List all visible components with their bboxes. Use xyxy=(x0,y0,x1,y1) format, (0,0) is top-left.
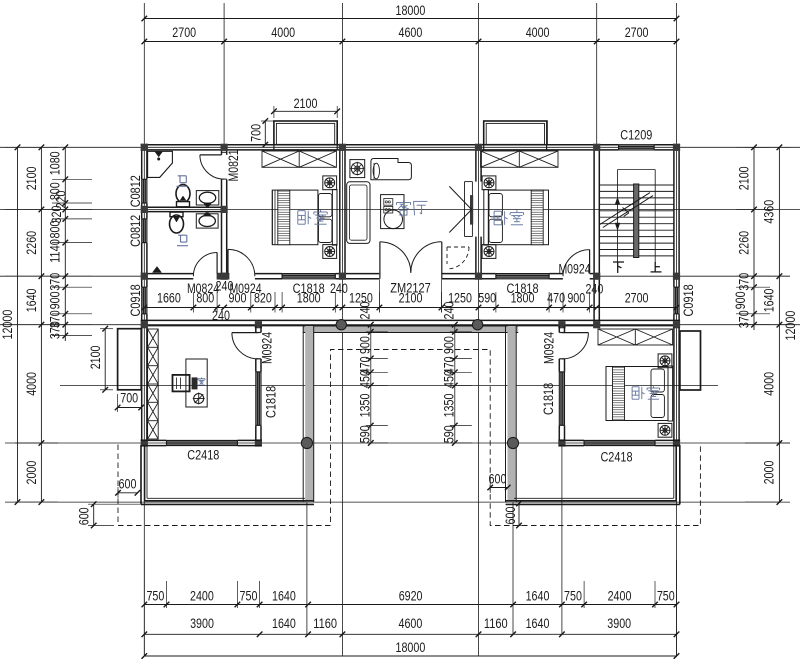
terrace right parapet xyxy=(506,445,680,504)
grid axis horizontal D xyxy=(0,324,800,326)
stair label down xyxy=(613,262,624,273)
svg-text:C2418: C2418 xyxy=(187,447,219,463)
svg-text:4600: 4600 xyxy=(399,616,423,632)
dim chain left sub (1080/800/220/320/800/1140/370/900/370/370) xyxy=(48,145,92,342)
svg-text:2000: 2000 xyxy=(24,461,40,485)
svg-text:1080: 1080 xyxy=(48,151,64,175)
svg-text:C1818: C1818 xyxy=(263,386,279,418)
room label bedroom2 xyxy=(494,210,523,225)
svg-text:2700: 2700 xyxy=(625,290,649,306)
wardrobe bedroom2 xyxy=(481,151,558,167)
wardrobe right-wing xyxy=(598,329,673,345)
veranda rail right xyxy=(506,326,517,502)
label C2418 left-wing xyxy=(187,447,219,463)
wardrobe bedroom1 xyxy=(262,151,336,167)
label C1209 xyxy=(620,127,652,143)
window C1818 left-wing xyxy=(256,372,261,425)
svg-text:18000: 18000 xyxy=(396,3,426,19)
door M0924 bedroom2 xyxy=(558,250,590,278)
svg-text:1640: 1640 xyxy=(24,288,40,312)
svg-text:900: 900 xyxy=(441,336,457,354)
svg-text:M0924: M0924 xyxy=(558,261,590,277)
wall right-wing left (C1818 wall) xyxy=(559,326,564,441)
bedside tables bedroom2 xyxy=(482,176,496,259)
veranda rail left xyxy=(303,326,314,502)
window C0812 lower xyxy=(142,219,147,243)
computer left-wing xyxy=(173,375,198,392)
svg-text:600: 600 xyxy=(77,507,93,525)
svg-text:600: 600 xyxy=(489,471,507,487)
dim bay1 700 xyxy=(248,118,277,147)
wall corridor north xyxy=(147,274,594,279)
stair treads xyxy=(600,185,674,256)
opening pass-through living-bedroom2 xyxy=(449,182,473,237)
bedside tables right-wing xyxy=(658,354,672,437)
appliance fan living xyxy=(350,160,365,178)
desk left-wing xyxy=(186,359,207,407)
svg-text:700: 700 xyxy=(120,390,138,406)
window C1818 bedroom1 south xyxy=(282,274,335,279)
dim chain left main (2100/2260/1640/4000/2000) xyxy=(5,145,58,505)
room label bathroom1 xyxy=(177,176,188,187)
grid axis verticals xyxy=(144,3,676,656)
svg-text:M0824: M0824 xyxy=(187,281,219,297)
svg-text:1640: 1640 xyxy=(272,588,296,604)
window C1818 bedroom2 south xyxy=(496,274,549,279)
window C0918 right corridor xyxy=(674,287,679,314)
stair landing xyxy=(618,170,656,257)
svg-text:240: 240 xyxy=(212,308,230,324)
svg-text:2400: 2400 xyxy=(608,588,632,604)
svg-text:4000: 4000 xyxy=(526,25,550,41)
svg-text:2260: 2260 xyxy=(737,231,753,255)
wall bedroom2-stair xyxy=(594,150,599,322)
bay window right-wing xyxy=(680,331,701,390)
dim bay1 2100 xyxy=(271,96,340,118)
wall left exterior xyxy=(142,144,147,328)
svg-text:M0924: M0924 xyxy=(541,332,557,364)
dim eaves left-bottom 600 xyxy=(77,501,147,528)
svg-text:1250: 1250 xyxy=(349,290,373,306)
svg-text:1640: 1640 xyxy=(761,288,777,312)
label M0924 left-wing xyxy=(260,332,276,364)
svg-text:C0812: C0812 xyxy=(128,175,144,207)
svg-text:2100: 2100 xyxy=(88,345,104,369)
dim chain courtyard right (240/900/470/450/1350/590) xyxy=(441,301,472,445)
eaves dashed outline xyxy=(118,350,700,526)
dim eaves left 600 xyxy=(115,477,140,498)
dashed future door living xyxy=(447,247,469,269)
cabinet TV living xyxy=(371,159,412,180)
toilet bathroom2 xyxy=(170,212,184,233)
floor drain marker xyxy=(153,267,162,273)
door M0924 right-wing xyxy=(562,333,588,359)
grid axis horizontal F xyxy=(15,501,781,503)
label M0924 right-wing xyxy=(541,332,557,364)
shower bathroom1 xyxy=(148,151,173,177)
dim chain bottom row1 (750/2400/750/1640/6920/1640/750/2400/750) xyxy=(142,560,680,656)
svg-text:600: 600 xyxy=(119,477,137,493)
label C0812 upper xyxy=(128,175,144,207)
svg-text:750: 750 xyxy=(564,588,582,604)
svg-text:3900: 3900 xyxy=(607,616,631,632)
svg-text:370: 370 xyxy=(48,321,64,339)
svg-text:1350: 1350 xyxy=(441,394,457,418)
svg-text:C1818: C1818 xyxy=(506,281,538,297)
svg-text:450: 450 xyxy=(441,370,457,388)
grid axis horizontal A xyxy=(0,146,800,148)
svg-text:1350: 1350 xyxy=(357,394,373,418)
svg-text:4000: 4000 xyxy=(24,372,40,396)
svg-text:370: 370 xyxy=(737,310,753,328)
wall right-wing bottom xyxy=(559,440,680,445)
svg-text:370: 370 xyxy=(48,273,64,291)
dim chain top (2700/4000/4600/4000/2700) xyxy=(142,25,680,44)
wall right exterior xyxy=(674,144,679,328)
wall living-bedroom2 xyxy=(476,150,481,274)
svg-text:4360: 4360 xyxy=(761,200,777,224)
svg-text:C1818: C1818 xyxy=(541,383,557,415)
window C1818 right-wing xyxy=(559,372,564,425)
svg-text:470: 470 xyxy=(547,290,565,306)
table living xyxy=(381,195,404,229)
window C1209 stair top xyxy=(619,145,655,150)
door M0924 bedroom1 xyxy=(228,249,255,276)
label C2418 right-wing xyxy=(600,449,632,465)
bed bedroom2 xyxy=(484,190,549,246)
dim bottom row3 18000 xyxy=(142,640,680,659)
svg-text:2400: 2400 xyxy=(190,588,214,604)
room label study xyxy=(198,378,205,386)
svg-text:750: 750 xyxy=(146,588,164,604)
svg-text:2700: 2700 xyxy=(625,25,649,41)
dim left-bay 2100 xyxy=(88,326,113,393)
svg-text:C1818: C1818 xyxy=(293,281,325,297)
dim eaves court 600 xyxy=(487,471,510,493)
svg-text:370: 370 xyxy=(737,273,753,291)
washbasin bathroom1 xyxy=(196,191,219,207)
wall bedroom1-living xyxy=(340,150,345,274)
labels corridor doors-windows xyxy=(187,279,603,324)
dim chain right inner (2100/2260/370/900/370) xyxy=(733,145,770,331)
flue X-strip left-wing wall xyxy=(148,329,159,439)
stair break line xyxy=(600,193,653,228)
svg-text:240: 240 xyxy=(585,281,603,297)
svg-text:2000: 2000 xyxy=(761,461,777,485)
svg-text:2100: 2100 xyxy=(737,166,753,190)
door M0824 bathroom2 xyxy=(193,253,217,277)
dim line left 12000 xyxy=(0,145,20,505)
svg-text:18000: 18000 xyxy=(396,640,426,656)
wall bath-bedroom1 xyxy=(222,150,227,274)
svg-text:M0924: M0924 xyxy=(260,332,276,364)
stair bay floor line xyxy=(599,275,674,277)
stair arrow down xyxy=(615,198,620,265)
dim chain right outer (4360/1640/4000/2000) xyxy=(745,145,790,505)
washbasin bathroom2 xyxy=(196,213,218,228)
dim chain bottom row2 (3900/1640/1160/4600/1160/1640/3900) xyxy=(142,616,680,637)
svg-text:800: 800 xyxy=(48,220,64,238)
dim eaves court-bottom 600 xyxy=(503,501,524,529)
svg-text:2700: 2700 xyxy=(172,25,196,41)
svg-text:590: 590 xyxy=(357,425,373,443)
window C0918 left corridor xyxy=(142,287,147,314)
svg-text:12000: 12000 xyxy=(783,311,799,341)
svg-text:1160: 1160 xyxy=(484,616,508,632)
svg-text:700: 700 xyxy=(248,124,264,142)
wall right-wing right exterior xyxy=(674,327,679,440)
svg-text:1250: 1250 xyxy=(448,290,472,306)
svg-text:1640: 1640 xyxy=(526,616,550,632)
wall left-wing right (C1818 wall) xyxy=(256,326,261,441)
svg-text:240: 240 xyxy=(330,281,348,297)
window C2418 left-wing xyxy=(167,440,238,445)
dim left-bay 700 xyxy=(115,390,144,412)
door M0821 bathroom1 xyxy=(200,149,242,181)
label C1818 left-wing xyxy=(263,386,279,418)
room label bedroom1 xyxy=(298,210,327,225)
bed bedroom1 xyxy=(272,190,337,246)
svg-text:1160: 1160 xyxy=(313,616,337,632)
wall upper-block south xyxy=(141,320,680,325)
svg-text:2100: 2100 xyxy=(24,166,40,190)
chair left-wing xyxy=(193,393,205,405)
door M0924 left-wing xyxy=(232,333,258,359)
room label living xyxy=(397,200,428,215)
svg-text:C0918: C0918 xyxy=(681,284,697,316)
dim chain courtyard left (240/900/470/450/1350/590) xyxy=(357,301,388,445)
svg-text:1640: 1640 xyxy=(526,588,550,604)
room label right-wing bedroom xyxy=(632,386,660,399)
grid axis bottom verticals xyxy=(307,443,562,634)
dim right 12000 text xyxy=(783,311,799,341)
room label bathroom2 xyxy=(177,235,188,246)
window C2418 right-wing xyxy=(584,440,655,445)
svg-text:C1209: C1209 xyxy=(620,127,652,143)
window C0812 upper xyxy=(142,179,147,203)
svg-text:4000: 4000 xyxy=(761,372,777,396)
label C1818 right-wing xyxy=(541,383,557,415)
svg-text:900: 900 xyxy=(567,290,585,306)
svg-text:M0821: M0821 xyxy=(226,149,242,181)
columns (filled squares at grid/wall junctions) xyxy=(141,144,680,447)
stair stringer xyxy=(634,184,639,258)
svg-text:600: 600 xyxy=(503,506,519,524)
svg-text:900: 900 xyxy=(48,291,64,309)
svg-text:1640: 1640 xyxy=(272,616,296,632)
svg-text:900: 900 xyxy=(733,291,749,309)
dim chain corridor (1660/800/900/820/1800/1250/2100/1250/590/1800/470/900/2700) xyxy=(142,279,680,312)
bed right-wing xyxy=(606,366,673,421)
svg-text:ZM2127: ZM2127 xyxy=(390,281,430,297)
svg-text:4000: 4000 xyxy=(271,25,295,41)
svg-text:C2418: C2418 xyxy=(600,449,632,465)
grid axis horizontal E xyxy=(15,442,790,444)
label C0918 right xyxy=(681,284,697,316)
svg-text:C0918: C0918 xyxy=(128,284,144,316)
svg-text:450: 450 xyxy=(357,370,373,388)
veranda rail top xyxy=(303,326,518,333)
grid axis horizontal B xyxy=(0,208,800,210)
entrance door ZM2127 double leaves xyxy=(380,242,442,279)
terrace left parapet xyxy=(141,445,314,504)
svg-text:6920: 6920 xyxy=(399,588,423,604)
grid axis horizontal C xyxy=(0,275,790,277)
svg-text:M0924: M0924 xyxy=(229,281,261,297)
svg-text:750: 750 xyxy=(240,588,258,604)
svg-text:900: 900 xyxy=(357,336,373,354)
stair arrow up xyxy=(654,256,656,264)
svg-text:590: 590 xyxy=(441,425,457,443)
svg-text:590: 590 xyxy=(478,290,496,306)
wall top exterior xyxy=(141,145,680,150)
svg-text:C0812: C0812 xyxy=(128,215,144,247)
toilet bathroom1 xyxy=(176,185,190,207)
dim line top 18000 xyxy=(142,3,680,21)
svg-text:2260: 2260 xyxy=(24,231,40,255)
svg-text:2100: 2100 xyxy=(294,96,318,112)
grid axis horizontal courtyard mid xyxy=(60,385,718,387)
bedside tables bedroom1 xyxy=(323,176,337,259)
svg-text:1140: 1140 xyxy=(48,239,64,263)
svg-text:1660: 1660 xyxy=(157,290,181,306)
wall left-wing bottom xyxy=(141,440,262,445)
label C0918 left xyxy=(128,284,144,316)
bay window bedroom2 top xyxy=(484,121,547,145)
wall bath1-bath2 xyxy=(147,207,222,211)
svg-text:3900: 3900 xyxy=(190,616,214,632)
label C0812 lower xyxy=(128,215,144,247)
svg-text:750: 750 xyxy=(657,588,675,604)
bay window left-wing xyxy=(118,329,142,390)
sofa living xyxy=(347,182,370,244)
bay window bedroom1 top xyxy=(274,121,337,145)
wall left-wing left exterior xyxy=(142,328,147,441)
veranda round columns xyxy=(301,320,518,449)
stair label up xyxy=(651,262,662,272)
svg-text:4600: 4600 xyxy=(399,25,423,41)
